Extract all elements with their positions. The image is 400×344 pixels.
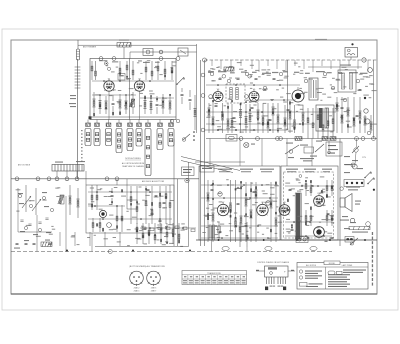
svg-text:MODEL: MODEL	[329, 263, 335, 265]
band switch wafer S2b	[127, 129, 133, 151]
band switch wafer S3a	[157, 129, 163, 150]
pilot circle B	[366, 222, 371, 227]
micro labels audio block	[285, 176, 335, 237]
IF output components	[116, 205, 118, 232]
transistor basing diagram XTAL1	[130, 271, 144, 286]
muting box with pill	[226, 135, 237, 142]
wire vertical strip-left B	[204, 60, 206, 246]
V1 stage resistor R2	[99, 95, 101, 114]
block header text labels	[218, 169, 332, 173]
band switch wafer S1b	[94, 129, 100, 146]
B+ terminal circle	[351, 163, 355, 167]
tube V11 rectifier (lower, dark)	[314, 227, 325, 238]
alignment point circle in RF block	[105, 62, 111, 71]
V1 stage resistor R1	[93, 92, 95, 114]
bypass capacitor C7	[156, 104, 159, 106]
svg-text:LAST ITEMS: LAST ITEMS	[342, 264, 353, 267]
table header cells text	[184, 276, 245, 277]
emitter bypass circle	[107, 223, 112, 228]
band switch wafer S1c	[106, 129, 112, 146]
svg-text:ALL UNITS SHOWN FROM: ALL UNITS SHOWN FROM	[122, 162, 145, 165]
function switch cluster	[285, 140, 330, 154]
phones jack J1	[350, 218, 354, 222]
long vertical feed A	[173, 139, 175, 247]
common ground dashed bus	[11, 251, 332, 253]
trimmer capacitor C12	[181, 94, 184, 96]
frame bottom edge darker	[11, 293, 377, 295]
padder capacitor C13	[189, 99, 192, 101]
B+ bus drop stubs	[212, 60, 368, 72]
junction dot right lower	[373, 189, 375, 191]
oscillator coil T2	[129, 99, 134, 107]
wafer index digits column	[81, 130, 83, 162]
V2 stage resistor R5	[125, 96, 127, 114]
small circle below audio header	[299, 175, 302, 178]
FM tuner box right edge	[287, 60, 289, 130]
hatched vertical pair mid-bottom	[209, 225, 215, 240]
small IF takeoff box	[127, 200, 137, 209]
IF can pin labels	[270, 286, 284, 287]
ratio detector transformer T5	[316, 105, 334, 131]
output transformer winding (dark bar)	[295, 193, 301, 239]
ground return wire C	[91, 233, 93, 252]
IF can pins group 2	[278, 277, 286, 284]
grid capacitors strip	[215, 105, 218, 107]
phono motor label	[300, 158, 314, 159]
node circles left of IF strip	[170, 119, 180, 123]
volume control R20	[216, 222, 220, 240]
V7 stage resistors	[207, 180, 209, 242]
trimmers on gang	[20, 218, 48, 225]
converter stage resistors A	[91, 185, 93, 210]
strip interconnect wire B	[206, 111, 336, 113]
node circle on ground bus	[108, 250, 112, 254]
IF can pin terminals	[265, 287, 286, 291]
wire to ground bus B	[246, 247, 248, 252]
alignment circle above V3	[222, 75, 226, 79]
heater bus left switch	[182, 134, 190, 141]
heater bus	[206, 138, 377, 140]
wire AVC bus top-left	[130, 51, 197, 53]
section divider line lower-left	[95, 246, 189, 248]
gang trimmer circles	[18, 194, 53, 231]
dark component bodies center block	[207, 181, 277, 232]
node circle on bus	[159, 50, 163, 54]
antenna ANT1	[77, 40, 80, 60]
terminal circle TP3	[365, 119, 370, 124]
phono jack box	[326, 142, 342, 156]
tube V9 audio output	[279, 203, 290, 216]
V2 grid resistor R4	[119, 94, 121, 114]
ground bus junction dots	[66, 250, 191, 252]
RF amplifier block enclosure	[90, 59, 176, 120]
V1 cathode resistor R3	[105, 96, 107, 114]
note circled number 1	[299, 270, 302, 279]
converter interconnect wire A	[88, 191, 172, 193]
bus node circles	[15, 177, 119, 181]
audio block wire C	[285, 235, 332, 237]
svg-text:AM CHECK ALIGN PT REF: AM CHECK ALIGN PT REF	[142, 180, 165, 183]
long vertical feed B	[177, 179, 179, 246]
AC interlock box	[345, 237, 354, 243]
AM IF / detector block enclosure	[199, 166, 280, 240]
IF strip header label blobs	[208, 71, 368, 74]
power switch lower	[350, 238, 358, 245]
tone switch S7b	[367, 178, 374, 185]
node 117 drop wire	[116, 179, 118, 185]
schematic border frame	[11, 40, 377, 294]
terminal circle TP2	[364, 109, 368, 113]
ground return wire A	[36, 215, 38, 252]
note text lines left	[305, 271, 322, 279]
upper band component strings RF block	[91, 61, 93, 80]
wires from RF block to wafer caps	[88, 120, 171, 124]
micro labels below converter	[71, 235, 183, 247]
lower-left cluster dark bits	[136, 229, 180, 244]
V8 stage resistors	[270, 182, 272, 242]
notes legend box	[297, 261, 368, 289]
node circles on FM box left edge	[201, 73, 205, 132]
audio output block enclosure	[281, 166, 338, 240]
IF can top view box	[265, 266, 289, 277]
strip to block drop wires	[210, 139, 312, 167]
detector output line	[195, 161, 245, 163]
center block wire B	[201, 197, 278, 199]
band change switch S4	[176, 77, 184, 85]
dark component bodies strip	[208, 100, 361, 131]
osc coil drop wire	[123, 47, 125, 59]
svg-text:ALL NOTES: ALL NOTES	[306, 264, 317, 267]
ballast resistor (hatched bar)	[349, 227, 370, 230]
strip extra strings right-mid	[307, 108, 309, 139]
junction dots on FM box bottom	[217, 129, 271, 131]
tube V5 FM mixer	[249, 90, 259, 102]
IF can pins group 1	[267, 277, 275, 284]
power feed vertical	[339, 139, 341, 247]
tube V2 drop wire	[139, 91, 141, 119]
tube V6 2nd IF amp (dark)	[292, 87, 304, 102]
svg-text:2SB77: 2SB77	[151, 291, 156, 293]
FM label right column	[340, 65, 351, 66]
micro labels strip lower	[209, 97, 377, 132]
dark component bodies converter block	[91, 188, 167, 231]
svg-text:2SA 12: 2SA 12	[134, 287, 140, 290]
V5 stage components cluster	[257, 103, 259, 133]
svg-text:2SB75: 2SB75	[151, 288, 156, 290]
junction dot above power box	[351, 43, 353, 45]
audio block wire A	[285, 185, 332, 187]
svg-text:ANT TRIMMER: ANT TRIMMER	[83, 46, 97, 49]
lower-left bottom components row	[60, 232, 120, 246]
aux terminal circle	[367, 131, 371, 135]
lower-left resistor RA	[169, 185, 171, 225]
right column capacitor	[359, 89, 362, 91]
converter block enclosure	[86, 185, 174, 233]
node circle on B+ bus right	[362, 58, 366, 62]
svg-text:+: +	[284, 270, 286, 274]
lower-left dense cluster	[136, 223, 138, 244]
strip scatter left edge	[208, 67, 232, 82]
resistor R12	[194, 95, 196, 130]
tuning gang capacitor C1b	[32, 188, 41, 215]
right area label blobs	[344, 156, 350, 157]
svg-text:(BOTTOM VIEWS) ALL TRANSISTOR: (BOTTOM VIEWS) ALL TRANSISTORS	[129, 265, 165, 268]
alignment point circles strip	[210, 72, 360, 102]
power switch S6	[352, 146, 359, 153]
tube V1 6BA6 RF amp	[104, 79, 114, 91]
filter capacitors row	[307, 237, 310, 239]
extra micro labels in RF block	[95, 60, 177, 106]
micro labels converter block	[88, 187, 174, 231]
lower-left misc capacitors	[147, 189, 150, 191]
tone switch S7a	[364, 172, 371, 179]
mid-bottom strings	[239, 222, 241, 247]
IF transformer T3	[309, 78, 318, 100]
section vertical divider	[188, 162, 190, 247]
terminal circle TP1	[368, 68, 373, 73]
grid node circle V8	[266, 201, 270, 205]
micro labels strip upper	[211, 62, 377, 96]
terminal circle right of audio block	[340, 187, 344, 191]
V7-V8 coupling components	[240, 182, 242, 242]
antenna coil L1 taps	[75, 67, 81, 88]
upper band dark bits RF block	[119, 71, 173, 78]
top-right tie line	[308, 66, 362, 68]
svg-text:CONTROL PLACED ON LEFT CHASSIS: CONTROL PLACED ON LEFT CHASSIS	[257, 261, 290, 264]
oscillator coil T1	[117, 43, 131, 48]
header tab inner box	[200, 166, 214, 173]
converter interconnect wire C	[88, 218, 172, 220]
tube V2 6BE6 converter	[134, 79, 144, 91]
V3 stage components cluster	[208, 103, 210, 133]
chassis oval tag A	[265, 247, 272, 251]
mixer coil L3	[58, 195, 64, 204]
heater bus node circles	[239, 137, 375, 141]
note small box left	[300, 283, 323, 288]
transistor basing diagram XTAL2	[147, 271, 161, 286]
converter extra strings	[130, 186, 132, 224]
dial lamp assembly	[178, 48, 188, 56]
main ganged-tuning bus	[11, 178, 199, 180]
band switch wafer S3b	[168, 129, 174, 147]
V6 stage components cluster	[284, 105, 286, 133]
center block capacitors	[211, 189, 214, 191]
tap dots column	[193, 131, 195, 141]
OSC adjust box in RF block	[118, 74, 125, 81]
oscillator components R15	[77, 188, 79, 218]
chassis ground line	[196, 239, 377, 241]
chassis line junction dots	[218, 239, 332, 241]
coil pack drop wires	[57, 171, 86, 179]
wire vertical strip-left A	[200, 60, 202, 246]
ground return wire B	[65, 196, 67, 252]
drawing number vertical text	[372, 232, 373, 286]
lower-left cluster labels	[135, 223, 185, 244]
svg-text:NOTE A TUNING: NOTE A TUNING	[125, 157, 141, 160]
speaker socket pins	[344, 180, 364, 187]
top distribution wire	[78, 44, 197, 46]
alignment node on bus left of blocks	[185, 178, 189, 182]
wire antenna feed	[77, 59, 79, 179]
wire block bottom rail	[90, 116, 176, 118]
IF can side leads	[256, 270, 295, 271]
center block wire D	[201, 237, 278, 239]
transistor voltage table	[182, 271, 247, 285]
grid cap circle V3	[209, 95, 213, 99]
alignment circle above V5	[248, 75, 252, 79]
band switch wafer S2a	[116, 129, 122, 153]
node circles on RF block top edge	[99, 57, 180, 61]
V2 cathode resistor R6	[144, 95, 146, 114]
dark component bodies RF block	[93, 94, 171, 116]
band switch wafer S1a	[85, 129, 91, 146]
wire from power box to bus	[350, 57, 352, 60]
bottom-left labels	[14, 248, 20, 249]
audio block capacitors	[289, 189, 292, 191]
tube V3 FM RF amp	[213, 90, 223, 102]
strip interconnect wire C	[206, 123, 315, 125]
audio block wire B	[285, 221, 332, 223]
audio block inner dashed border	[284, 172, 334, 238]
alignment point symbol	[244, 142, 249, 147]
FM top dark label	[224, 67, 234, 71]
converter bottom components row	[142, 226, 195, 232]
V1 interstage wires	[92, 80, 174, 82]
small capacitors row top strip	[219, 78, 222, 80]
strip second scatter	[206, 68, 371, 132]
chassis oval tag C	[222, 247, 229, 251]
audio block resistors B	[326, 180, 328, 196]
transistor TR1 converter	[99, 210, 106, 217]
center block wire C	[201, 225, 278, 227]
svg-text:TRANSISTORS: TRANSISTORS	[207, 272, 221, 275]
socket wiring label	[346, 187, 360, 188]
strip interconnect wire D	[255, 99, 296, 101]
gang section labels	[18, 193, 23, 194]
svg-text:ANT OUTSIDE: ANT OUTSIDE	[18, 164, 31, 167]
junction dot near frame	[364, 239, 366, 241]
audio block resistors C	[305, 210, 307, 226]
stage label blobs	[99, 60, 160, 63]
ground bus hatched tag	[41, 242, 52, 247]
tube V8 1st audio	[257, 202, 268, 215]
converter interconnect wire B	[88, 205, 125, 207]
grid cap circle V5	[245, 95, 249, 99]
svg-text:2SA 15: 2SA 15	[134, 290, 140, 293]
V1 screen wire	[92, 94, 136, 96]
detector stage components cluster	[336, 97, 338, 133]
note pill symbol right	[328, 271, 342, 275]
mixer grid capacitor	[111, 195, 114, 197]
diagonal routing wire A	[181, 157, 240, 171]
strip interconnect wire A	[206, 84, 300, 86]
micro labels tuning gang	[16, 187, 61, 237]
band switch wafer S2c	[136, 129, 142, 147]
audio block resistors A	[305, 180, 307, 196]
V4 stage components cluster	[231, 104, 233, 133]
svg-text:REAR VIEW OF CHASSIS: REAR VIEW OF CHASSIS	[122, 165, 144, 168]
FM DET header box	[182, 167, 195, 176]
decoupling resistor R9	[169, 96, 171, 114]
mid tie wires	[85, 179, 87, 185]
hatched tags on heater bus	[295, 137, 302, 141]
node circle at B+ bus start	[203, 58, 207, 62]
coupling capacitor C4	[112, 103, 115, 105]
screen resistor R7	[150, 97, 152, 114]
speaker SP1	[340, 194, 352, 212]
inner vertical line near right frame	[373, 60, 375, 139]
plate load resistor R8	[162, 94, 164, 114]
tuning coil pack L2	[52, 165, 84, 172]
switch cluster labels	[286, 143, 293, 144]
bottom-left small parts row	[16, 243, 19, 245]
wire top-left feed vertical	[196, 44, 198, 133]
RF block stage divider	[129, 59, 131, 120]
oscillator trim resistor R14	[69, 185, 71, 215]
strip third scatter upper mid	[250, 65, 288, 91]
junction dark dot right column	[364, 97, 366, 99]
chassis oval tag B	[310, 247, 317, 251]
gang frame outline	[18, 188, 52, 232]
band switch wafer caps row	[86, 123, 174, 126]
speaker impedance label	[355, 201, 361, 202]
fuse box on chassis line	[296, 237, 308, 243]
tube V1 drop wire	[108, 91, 110, 119]
AC plug circle	[352, 139, 357, 170]
tiny label on top frame	[315, 39, 327, 40]
V2 plate wire	[140, 97, 174, 99]
micro labels center block	[202, 179, 282, 239]
tube V7 AM detector	[217, 202, 228, 215]
power takeoff box	[345, 48, 358, 58]
dark corner mark RF block	[89, 116, 92, 119]
wire to ground bus A	[211, 240, 213, 252]
tuning gang capacitor C1a	[22, 185, 31, 212]
center block wire A	[201, 184, 278, 186]
band switch wafer S2d	[145, 129, 151, 176]
tube V10 power rectifier	[314, 194, 325, 207]
pilot lamp PL1	[143, 49, 153, 56]
IF transformer T4	[338, 70, 356, 92]
FM tuner box bottom edge	[205, 129, 288, 131]
diagonal routing wire B	[181, 161, 233, 173]
converter stage resistors B	[92, 218, 94, 232]
table value cells text	[183, 280, 246, 283]
converter interconnect wire D	[140, 227, 196, 229]
oscillator coil elements	[230, 88, 238, 100]
grid node circle V7	[218, 192, 222, 196]
B+ distribution bus (dashed)	[205, 59, 378, 61]
dark component bodies audio block	[287, 180, 333, 228]
note text lines right	[328, 270, 366, 288]
oscillator dashed box	[226, 84, 245, 103]
AVC divider resistors	[364, 115, 366, 133]
wire stub to box edge	[129, 52, 131, 59]
